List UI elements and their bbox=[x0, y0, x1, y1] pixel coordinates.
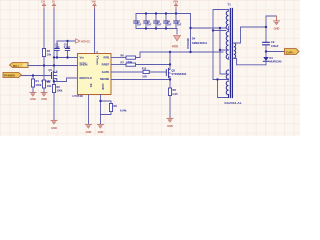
wire RREF pin row bbox=[111, 64, 126, 66]
svg-text:400VAC: 400VAC bbox=[186, 38, 190, 50]
wire VOUT node to port bbox=[266, 51, 285, 53]
capacitor C7 bbox=[174, 14, 182, 29]
power flag snubber (x=176) bbox=[173, 1, 178, 10]
svg-text:Vin: Vin bbox=[80, 56, 85, 60]
svg-text:400: 400 bbox=[172, 44, 179, 48]
resistor R7 (RREF) bbox=[121, 60, 136, 66]
wire SENSE pin row bbox=[111, 79, 170, 81]
svg-text:R6: R6 bbox=[121, 53, 125, 57]
wire primary riser x220 bbox=[213, 28, 229, 80]
svg-text:D1: D1 bbox=[270, 56, 274, 60]
svg-text:SHDN: SHDN bbox=[80, 63, 88, 67]
snubber capacitor bank bottom bus bbox=[136, 28, 177, 30]
resistor R8 (sense) bbox=[168, 88, 178, 118]
svg-text:R4: R4 bbox=[47, 49, 51, 53]
svg-text:R7: R7 bbox=[121, 60, 125, 64]
svg-text:GND: GND bbox=[41, 97, 47, 101]
svg-text:GND: GND bbox=[167, 124, 173, 128]
svg-text:Q2: Q2 bbox=[172, 69, 176, 73]
wire secondary top tap to output gnd node bbox=[234, 27, 266, 43]
svg-text:1nF: 1nF bbox=[147, 23, 152, 26]
transistor Q2 bbox=[166, 68, 186, 77]
svg-text:T1: T1 bbox=[228, 3, 232, 7]
background sheet bbox=[0, 0, 300, 136]
resistor R1 bbox=[31, 76, 41, 93]
ground (SS pin) bbox=[86, 124, 92, 133]
capacitor C6 bbox=[64, 41, 71, 58]
port CAP+ bbox=[285, 49, 300, 55]
svg-text:STD4NK60Z: STD4NK60Z bbox=[172, 72, 187, 76]
svg-text:C9: C9 bbox=[271, 40, 275, 44]
capacitor C9 (output) bbox=[263, 27, 279, 52]
svg-text:CAP+: CAP+ bbox=[286, 50, 294, 54]
svg-text:R10: R10 bbox=[142, 67, 147, 70]
svg-text:12V: 12V bbox=[41, 1, 46, 4]
wire GATE pin row bbox=[111, 71, 143, 73]
primary winding 2 bbox=[226, 32, 228, 60]
svg-text:GATE: GATE bbox=[102, 70, 110, 74]
wire R7 to FET drain lead bbox=[136, 64, 171, 66]
wire ENABLE to Q1 gate bbox=[22, 75, 52, 77]
ground (output) bbox=[274, 16, 280, 30]
power flag VIN2 (x=54) bbox=[52, 1, 56, 10]
IC bottom pin SS wire bbox=[88, 95, 90, 125]
svg-text:GND: GND bbox=[274, 26, 280, 30]
ground (R5) bbox=[41, 92, 47, 101]
wire from flag to IC top pin bbox=[94, 9, 96, 54]
wire winding4 bottom loop bbox=[218, 80, 229, 98]
wire Q1 source down and step to IC EN pin bbox=[54, 78, 78, 82]
svg-text:100uF: 100uF bbox=[271, 44, 279, 48]
svg-text:0.05: 0.05 bbox=[173, 92, 179, 96]
wire DCIN to IC pin SHDN bbox=[28, 65, 78, 67]
wire top bus down to drain rail (400V riser) bbox=[190, 14, 192, 53]
svg-text:VIN: VIN bbox=[92, 1, 96, 4]
primary winding 1 bbox=[226, 11, 228, 29]
wire from flag x54 down to Q1 bbox=[53, 9, 55, 72]
wire RFB pin row bbox=[111, 57, 126, 59]
svg-text:Q1: Q1 bbox=[49, 68, 53, 72]
wire flag to top bus bbox=[175, 9, 177, 14]
port ENABLE bbox=[3, 73, 22, 78]
svg-text:0.1uF: 0.1uF bbox=[64, 46, 71, 49]
resistor R2 bbox=[52, 82, 62, 121]
svg-text:GND: GND bbox=[51, 126, 57, 130]
svg-text:100k: 100k bbox=[36, 83, 42, 87]
wire R4 to VIN wire bbox=[43, 57, 45, 66]
svg-text:MURS340: MURS340 bbox=[270, 60, 283, 64]
resistor R6 (RFB) bbox=[121, 53, 136, 64]
svg-text:GND: GND bbox=[98, 130, 104, 134]
svg-text:1nF: 1nF bbox=[177, 23, 182, 26]
svg-text:10R: 10R bbox=[142, 75, 147, 78]
svg-text:10k: 10k bbox=[47, 84, 52, 88]
svg-text:100k: 100k bbox=[57, 89, 63, 93]
port DCIN bbox=[10, 63, 29, 68]
svg-text:R8: R8 bbox=[173, 88, 177, 92]
ground (R1) bbox=[30, 92, 36, 101]
svg-text:10k: 10k bbox=[47, 53, 52, 57]
wire primary top bbox=[213, 10, 229, 80]
power flag VIN1 (x=44) bbox=[41, 1, 46, 10]
transformer winding 4 bbox=[226, 81, 228, 95]
svg-text:1uF: 1uF bbox=[55, 46, 60, 49]
core bbox=[230, 9, 232, 98]
capacitor C4 bbox=[164, 14, 172, 29]
svg-text:SMBJ400CA: SMBJ400CA bbox=[192, 41, 207, 45]
svg-text:VTrans: VTrans bbox=[96, 56, 100, 66]
svg-text:R9: R9 bbox=[114, 104, 118, 108]
power port INTVCC arrow right bbox=[76, 39, 91, 44]
svg-text:1nF: 1nF bbox=[157, 23, 162, 26]
svg-text:DC+: DC+ bbox=[13, 64, 19, 68]
ground (R2) bbox=[51, 120, 57, 129]
diode D1 bbox=[263, 52, 282, 65]
capacitor C5 bbox=[55, 41, 60, 58]
capacitor C1 bbox=[134, 14, 142, 29]
ground (IC GND pin) bbox=[98, 124, 104, 133]
wire from flag to R4 bbox=[43, 9, 45, 49]
wire INTVCC row y41 bbox=[57, 40, 76, 42]
svg-text:RREF: RREF bbox=[102, 63, 110, 67]
svg-text:EN/UVLO: EN/UVLO bbox=[80, 76, 93, 80]
op-amp U1 LT3748 body bbox=[78, 54, 112, 95]
bias winding bbox=[226, 70, 228, 79]
power flag VIN3 (x=94.5) bbox=[92, 1, 97, 10]
wire drain rail to transformer primary taps bbox=[191, 27, 227, 29]
svg-text:R5: R5 bbox=[47, 80, 51, 84]
svg-text:1nF: 1nF bbox=[137, 23, 142, 26]
secondary winding bbox=[234, 43, 236, 58]
wire Q2 drain lead bbox=[169, 52, 171, 69]
wire output gnd stub bbox=[266, 16, 277, 27]
svg-text:SS: SS bbox=[89, 84, 93, 88]
resistor R10 (gate) bbox=[142, 67, 150, 78]
svg-text:GND: GND bbox=[101, 84, 105, 90]
svg-text:RFB: RFB bbox=[104, 56, 110, 60]
wire gate resistor to Q2 gate bbox=[149, 71, 166, 73]
svg-text:VSN: VSN bbox=[173, 1, 178, 4]
wire VIN bus y57.5 to IC bbox=[54, 57, 78, 59]
svg-text:DA2034-AL: DA2034-AL bbox=[225, 101, 242, 105]
svg-text:SENSE: SENSE bbox=[100, 77, 110, 81]
svg-text:6.04k: 6.04k bbox=[120, 108, 127, 112]
capacitor C3 bbox=[154, 14, 162, 29]
ground (sense resistor) bbox=[167, 118, 173, 127]
transistor Q1 bbox=[42, 68, 57, 83]
snubber capacitor bank top bus bbox=[136, 13, 191, 15]
svg-text:GND: GND bbox=[30, 97, 36, 101]
svg-text:INTVCC: INTVCC bbox=[81, 41, 91, 44]
svg-text:R1: R1 bbox=[36, 79, 40, 83]
wire secondary bottom tap to diode bbox=[234, 59, 266, 65]
power port 400V (snubber bottom) bbox=[172, 29, 181, 49]
resistor R5 (lower divider) bbox=[42, 66, 51, 93]
resistor R9 jog bbox=[101, 101, 128, 115]
svg-text:GND: GND bbox=[86, 130, 92, 134]
svg-text:1nF: 1nF bbox=[167, 23, 172, 26]
svg-text:LT3748: LT3748 bbox=[73, 94, 83, 98]
svg-text:R2: R2 bbox=[57, 85, 61, 89]
wire R6 to drain rail bbox=[136, 52, 224, 58]
resistor R4 bbox=[42, 49, 51, 57]
wire Q2 source lead bbox=[169, 77, 171, 88]
svg-text:PVINEN: PVINEN bbox=[4, 74, 15, 78]
transformer T1 bbox=[225, 3, 242, 105]
IC bottom pin GND wire bbox=[100, 95, 102, 125]
svg-text:5V: 5V bbox=[52, 1, 55, 4]
capacitor C2 bbox=[144, 14, 152, 29]
